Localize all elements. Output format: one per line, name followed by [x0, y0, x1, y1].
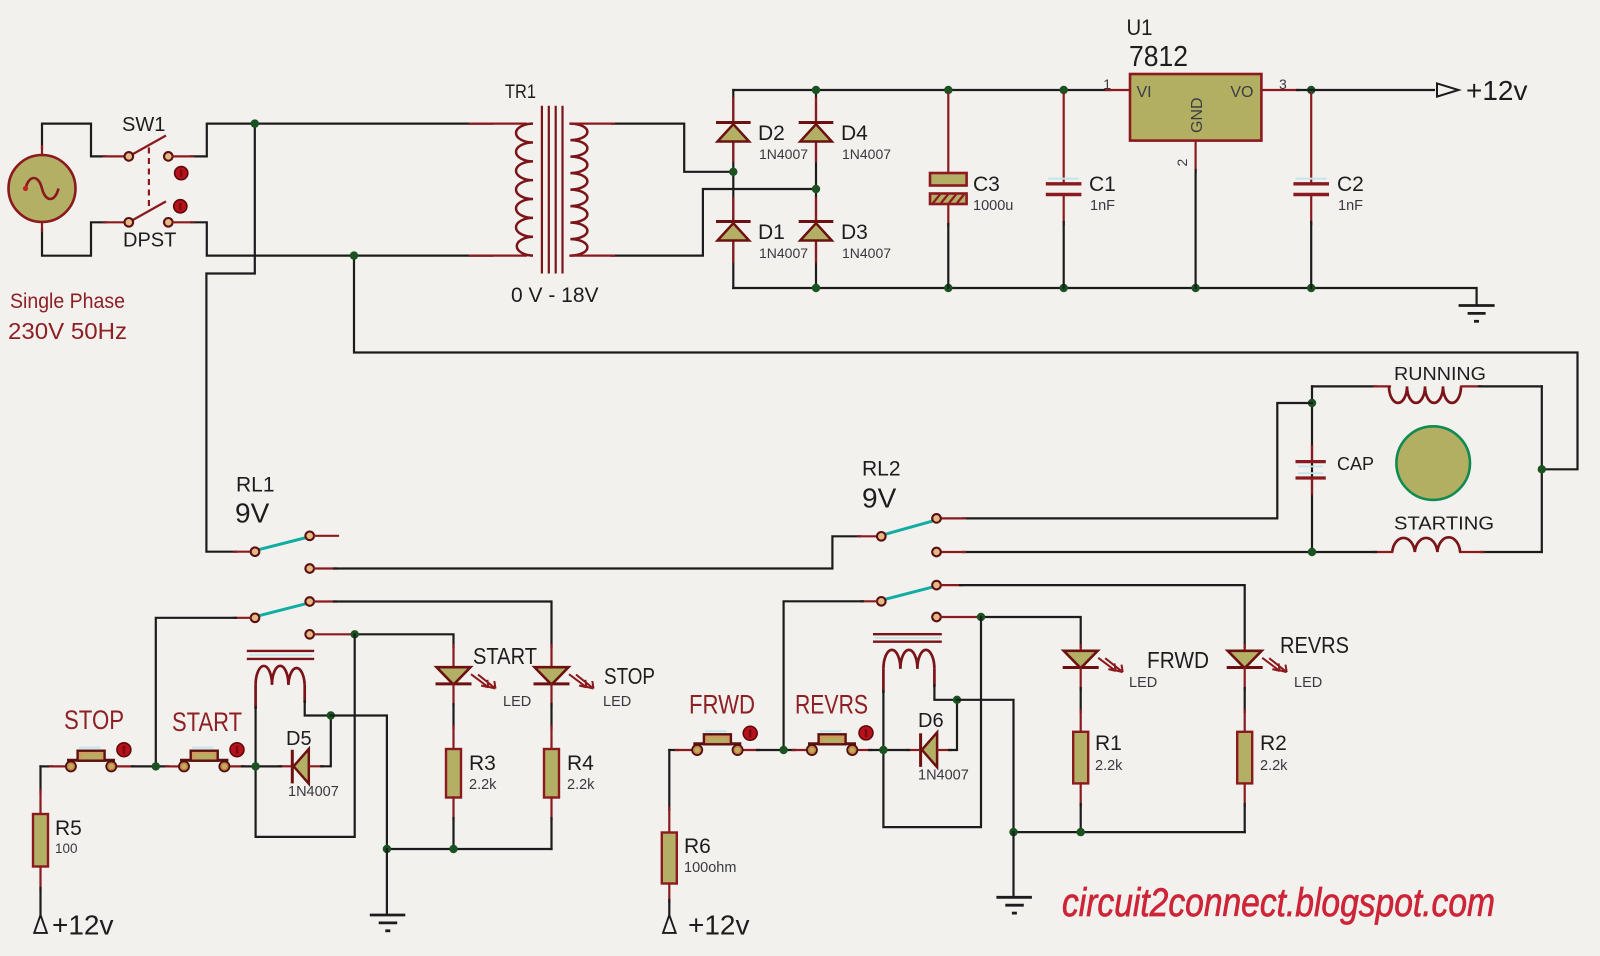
- svg-text:+12v: +12v: [52, 910, 114, 941]
- svg-text:D2: D2: [758, 122, 785, 145]
- wire secondary 0V tap down and right to motor: [354, 256, 1578, 470]
- svg-text:D3: D3: [841, 221, 868, 244]
- wire RL1b throw2 to START LED: [314, 634, 453, 666]
- svg-text:START: START: [172, 707, 242, 737]
- node row / RL2 coil: [879, 746, 887, 754]
- svg-text:+12v: +12v: [688, 910, 750, 941]
- push button REVRS: [807, 731, 857, 755]
- wire RL2b common to FRWD/REVRS row: [784, 601, 877, 750]
- capacitor C2: [1293, 94, 1329, 288]
- capacitor CAP: [1296, 462, 1326, 478]
- svg-text:SW1: SW1: [122, 114, 165, 136]
- push button STOP: [66, 748, 116, 772]
- wire node to right ground column: [957, 700, 1014, 832]
- wire RL1a throw2 to RL2 common: [314, 536, 876, 568]
- REVRS actuator dot: [859, 726, 873, 740]
- wire RL2b throw1 to REVRS LED: [941, 585, 1245, 650]
- svg-text:1N4007: 1N4007: [759, 245, 808, 261]
- svg-text:TR1: TR1: [505, 82, 536, 103]
- node secondary bottom junction: [812, 185, 820, 193]
- node secondary top junction: [729, 168, 737, 176]
- ground (top right): [1459, 306, 1495, 322]
- ground (bottom left): [370, 849, 406, 931]
- svg-text:FRWD: FRWD: [1147, 647, 1209, 673]
- svg-text:1nF: 1nF: [1090, 198, 1115, 214]
- node rail-ground right: [1009, 828, 1017, 836]
- svg-text:VO: VO: [1230, 84, 1253, 101]
- wire bridge left column: [732, 90, 734, 288]
- node row / RL2b common: [779, 746, 787, 754]
- resistor R2: [1237, 732, 1252, 832]
- wire motor right vertical: [1541, 386, 1543, 552]
- nodes on rails: [812, 86, 820, 94]
- motor block: top wire + RUNNING winding: [1312, 386, 1542, 403]
- svg-text:1000u: 1000u: [973, 198, 1013, 214]
- svg-text:2.2k: 2.2k: [567, 777, 595, 793]
- wire top +V rail: [733, 89, 1110, 91]
- svg-text:100: 100: [55, 841, 78, 856]
- relay contact RL1a (upper): [251, 532, 314, 573]
- node RL1b throw2: [351, 630, 359, 638]
- svg-text:C2: C2: [1337, 173, 1364, 196]
- SW1 actuator dot A: [175, 167, 188, 180]
- svg-text:D6: D6: [918, 710, 944, 732]
- diode D5: [279, 749, 323, 784]
- wire RL1 coil right tail to D5 anode node: [305, 701, 331, 716]
- push button START: [179, 748, 229, 772]
- wire FRWD LED to R1: [1080, 668, 1082, 732]
- svg-text:1: 1: [1103, 76, 1111, 92]
- svg-text:7812: 7812: [1129, 41, 1188, 73]
- wire SW1 pole B to transformer primary bottom: [191, 222, 492, 255]
- svg-text:D4: D4: [841, 122, 868, 145]
- wire button row (left): [41, 765, 282, 767]
- +12v terminal (bottom right): [663, 915, 676, 933]
- wire STOP LED to R4: [550, 685, 552, 749]
- wire SW1 pole A to transformer primary top: [191, 124, 492, 157]
- svg-text:D5: D5: [286, 728, 312, 750]
- wire loop around D5/coil: [256, 634, 355, 837]
- wire RL1b throw1 to STOP LED: [314, 602, 551, 667]
- svg-text:1N4007: 1N4007: [842, 146, 891, 162]
- svg-text:1N4007: 1N4007: [288, 784, 339, 800]
- diode D1: [716, 222, 751, 241]
- LED REVRS: [1227, 651, 1287, 672]
- AC source V? single phase: [9, 155, 76, 222]
- node D6 anode: [953, 696, 961, 704]
- resistor R6: [662, 750, 677, 915]
- wire bottom 0V rail: [733, 288, 1476, 305]
- svg-text:R4: R4: [567, 752, 594, 775]
- node RL2b throw2: [977, 613, 985, 621]
- node rail R3: [449, 845, 457, 853]
- svg-text:100ohm: 100ohm: [684, 860, 736, 876]
- svg-text:FRWD: FRWD: [689, 690, 755, 720]
- node rail R1: [1077, 828, 1085, 836]
- wire RL2 coil left tail down: [882, 691, 884, 752]
- node A (rail after SW1): [251, 119, 259, 127]
- wire bottom rail (right section): [1014, 831, 1245, 833]
- relay contact RL2b (lower): [877, 581, 941, 622]
- wire node to RL1 feed (jog): [206, 124, 254, 552]
- node rail-ground left: [383, 845, 391, 853]
- node motor left top: [1308, 399, 1316, 407]
- motor block: bottom wire + STARTING winding: [941, 537, 1542, 552]
- svg-text:+12v: +12v: [1466, 75, 1528, 106]
- diode D6: [907, 732, 951, 767]
- svg-text:2.2k: 2.2k: [469, 777, 497, 793]
- ground (bottom right): [996, 832, 1032, 913]
- wire secondary bottom to bridge: [612, 189, 816, 256]
- svg-text:Single Phase: Single Phase: [10, 290, 125, 313]
- wire source top to SW1 pole A: [42, 124, 106, 157]
- node button row / coil-D5: [251, 762, 259, 770]
- svg-text:2: 2: [1174, 159, 1190, 167]
- wire bridge mid column: [815, 90, 817, 288]
- svg-text:9V: 9V: [235, 498, 270, 529]
- motor M (single phase): [1396, 426, 1470, 500]
- diode D3: [799, 222, 834, 241]
- capacitor C3 (electrolytic): [930, 94, 967, 288]
- wire motor left vertical with CAP: [1311, 386, 1313, 552]
- svg-text:1nF: 1nF: [1338, 198, 1363, 214]
- svg-text:2.2k: 2.2k: [1095, 758, 1123, 774]
- svg-text:2.2k: 2.2k: [1260, 758, 1288, 774]
- svg-text:LED: LED: [503, 694, 531, 710]
- wire D6 anode up to node: [949, 700, 957, 750]
- wire secondary top to bridge: [612, 124, 733, 172]
- switch SW1 DPST pole A: [125, 136, 173, 161]
- +12v output arrow: [1437, 83, 1459, 96]
- SW1 gang dashed link: [148, 148, 150, 208]
- svg-text:C1: C1: [1089, 173, 1116, 196]
- svg-text:1N4007: 1N4007: [918, 768, 969, 784]
- FRWD actuator dot: [743, 726, 757, 740]
- node button row / RL1b common: [152, 762, 160, 770]
- wire START LED to R3: [452, 685, 454, 749]
- wire D5 anode up to node: [321, 716, 331, 767]
- svg-text:R6: R6: [684, 835, 711, 858]
- STOP actuator dot: [117, 743, 131, 757]
- svg-text:STARTING: STARTING: [1394, 514, 1494, 534]
- svg-text:R1: R1: [1095, 732, 1122, 755]
- op-amp U1 regulator 7812: [1130, 74, 1261, 141]
- LED STOP: [534, 667, 594, 688]
- svg-text:0 V - 18V: 0 V - 18V: [511, 284, 599, 307]
- svg-text:RUNNING: RUNNING: [1394, 364, 1486, 384]
- svg-text:REVRS: REVRS: [795, 690, 868, 720]
- +12v terminal (bottom left): [34, 915, 47, 933]
- wire RL2 coil right tail to D6 anode node: [934, 685, 957, 700]
- node motor left bottom: [1308, 548, 1316, 556]
- svg-text:RL1: RL1: [236, 474, 275, 497]
- svg-text:1N4007: 1N4007: [842, 245, 891, 261]
- transformer TR1: [516, 106, 587, 274]
- relay contact RL1b (lower): [251, 597, 314, 638]
- svg-text:DPST: DPST: [123, 230, 176, 252]
- svg-text:STOP: STOP: [604, 663, 655, 689]
- resistor R5: [33, 766, 48, 914]
- resistor R1: [1073, 732, 1088, 832]
- svg-text:R5: R5: [55, 817, 82, 840]
- LED FRWD: [1063, 651, 1123, 672]
- svg-text:LED: LED: [603, 694, 631, 710]
- svg-text:R2: R2: [1260, 732, 1287, 755]
- relay coil RL2: [873, 634, 942, 693]
- capacitor C1: [1046, 94, 1082, 288]
- LED START: [436, 667, 496, 688]
- relay coil RL1: [247, 651, 314, 709]
- resistor R3: [446, 749, 461, 849]
- svg-text:circuit2connect.blogspot.com: circuit2connect.blogspot.com: [1062, 881, 1495, 925]
- node B (0V tap): [350, 251, 358, 259]
- svg-text:REVRS: REVRS: [1280, 632, 1349, 658]
- svg-text:1N4007: 1N4007: [759, 146, 808, 162]
- svg-text:U1: U1: [1127, 15, 1153, 40]
- svg-text:START: START: [473, 643, 537, 669]
- svg-text:230V 50Hz: 230V 50Hz: [8, 318, 127, 344]
- svg-text:GND: GND: [1189, 97, 1206, 133]
- wire RL1 coil left tail to button row: [255, 707, 257, 766]
- svg-text:C3: C3: [973, 173, 1000, 196]
- wire node to left ground column: [331, 716, 387, 850]
- svg-text:LED: LED: [1294, 675, 1322, 691]
- node D5 anode: [327, 711, 335, 719]
- resistor R4: [544, 749, 559, 849]
- wire motor left to RL2 NO throw: [963, 403, 1312, 518]
- switch SW1 DPST pole B: [125, 201, 173, 226]
- wire RL1a throw1 stub: [314, 535, 338, 537]
- svg-text:VI: VI: [1137, 84, 1152, 101]
- diode D4: [799, 123, 834, 142]
- push button FRWD: [692, 731, 742, 755]
- wire loop around D6/coil: [883, 617, 981, 827]
- wire bottom rail (left section): [387, 848, 552, 850]
- wire RL2b throw2 to FRWD LED: [941, 617, 1081, 650]
- svg-text:9V: 9V: [862, 483, 897, 514]
- svg-text:CAP: CAP: [1337, 454, 1374, 474]
- wire RL1b common to button row: [156, 618, 251, 767]
- svg-text:LED: LED: [1129, 675, 1157, 691]
- wire REVRS LED to R2: [1244, 668, 1246, 732]
- wire source bottom to SW1 pole B: [42, 222, 106, 255]
- node motor right: [1538, 465, 1546, 473]
- svg-text:STOP: STOP: [64, 705, 124, 735]
- SW1 actuator dot B: [174, 200, 187, 213]
- wire button row (right): [669, 749, 909, 751]
- relay contact RL2a (upper): [877, 514, 941, 556]
- diode D2: [716, 123, 751, 142]
- svg-text:RL2: RL2: [862, 458, 901, 481]
- START actuator dot: [230, 743, 244, 757]
- svg-text:R3: R3: [469, 752, 496, 775]
- svg-text:D1: D1: [758, 221, 785, 244]
